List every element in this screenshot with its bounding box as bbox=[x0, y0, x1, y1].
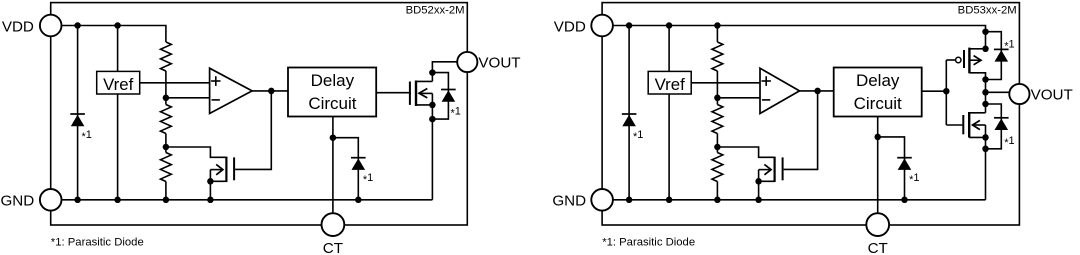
resistor R4 bbox=[712, 42, 723, 71]
voltage reference Vref right bbox=[648, 71, 691, 94]
GND pin right bbox=[591, 189, 613, 211]
voltage reference Vref bbox=[97, 71, 140, 94]
junction on GND rail at Vref bbox=[114, 197, 121, 204]
VDD rail wire bbox=[51, 26, 166, 43]
diode D2 parasitic bbox=[441, 89, 456, 91]
wire comparator output to Q2 gate bbox=[784, 91, 818, 169]
transistor M1 gate bar bbox=[409, 82, 411, 105]
transistor M3 drain lead bbox=[969, 112, 985, 114]
node comparator output right bbox=[814, 88, 821, 95]
transistor M1 source lead bbox=[416, 104, 432, 106]
wire CT branch to diode D7 bbox=[878, 137, 905, 200]
node M2 drain bbox=[982, 46, 989, 53]
transistor M1 channel bar bbox=[415, 81, 417, 107]
transistor M2 drain lead bbox=[969, 48, 985, 50]
transistor Q2 body arrow bbox=[759, 169, 770, 171]
node divider tap 3 bbox=[714, 95, 721, 102]
transistor M2 gate bar bbox=[963, 50, 965, 68]
node divider tap 4 bbox=[714, 144, 721, 151]
node divider tap 1 bbox=[163, 95, 170, 102]
GND rail wire bbox=[51, 199, 433, 201]
transistor Q1 channel bar bbox=[225, 157, 227, 182]
wire delay circuit to output gates bbox=[922, 90, 947, 92]
wire Vref to GND rail right bbox=[668, 94, 670, 200]
svg-text:*1: Parasitic Diode: *1: Parasitic Diode bbox=[51, 237, 144, 249]
wire M1 body-source to GND rail bbox=[431, 93, 433, 199]
svg-text:GND: GND bbox=[0, 192, 34, 209]
plus sign of U2 bbox=[762, 80, 771, 82]
node VDD rail end bbox=[982, 28, 989, 35]
comparator output wire right bbox=[800, 90, 834, 92]
diode D3 parasitic bbox=[351, 157, 366, 159]
VDD pin right bbox=[591, 15, 613, 37]
VOUT pin bbox=[457, 52, 477, 72]
node gate split bbox=[943, 88, 950, 95]
node M3 drain bbox=[982, 101, 989, 108]
wire divider tap to comparator - input right bbox=[717, 97, 760, 99]
diode D6 parasitic bbox=[994, 117, 1009, 119]
delay circuit block bbox=[288, 68, 376, 117]
junction on GND rail at R3 bbox=[163, 197, 170, 204]
svg-text:*1: Parasitic Diode: *1: Parasitic Diode bbox=[602, 237, 695, 249]
wire delay circuit to CT right bbox=[877, 117, 879, 225]
wire to M2 gate bubble bbox=[946, 59, 955, 61]
wire divider tap to comparator - input bbox=[166, 97, 210, 99]
svg-text:VDD: VDD bbox=[2, 19, 34, 36]
node M2 diode return bbox=[982, 76, 989, 83]
junction on GND rail at R6 bbox=[714, 197, 721, 204]
transistor Q2 source lead bbox=[759, 180, 775, 182]
wire delay circuit to M1 gate bbox=[376, 92, 411, 94]
op-amp comparator U1 bbox=[210, 68, 253, 113]
node divider tap 2 bbox=[163, 144, 170, 151]
junction on GND rail at Q2 bbox=[755, 197, 762, 204]
svg-text:VDD: VDD bbox=[554, 19, 586, 36]
wire delay circuit to CT bbox=[332, 117, 334, 225]
junction on GND rail at D7 bbox=[901, 197, 908, 204]
VDD pin bbox=[40, 15, 62, 37]
wire M3 body-source to GND rail bbox=[985, 125, 987, 200]
transistor Q2 gate bar bbox=[782, 157, 784, 180]
package outline BD53xx-2M bbox=[602, 3, 1019, 225]
package outline BD52xx-2M bbox=[51, 3, 468, 225]
svg-text:VOUT: VOUT bbox=[478, 55, 520, 72]
node M1 source bbox=[429, 102, 436, 109]
junction on GND rail at D3 bbox=[355, 197, 362, 204]
wire gate split vertical bbox=[945, 60, 947, 125]
junction Q2 source bbox=[755, 178, 762, 185]
wire parasitic diode D6 branch bbox=[986, 104, 1002, 149]
wire M2 source to M3 drain bbox=[985, 80, 987, 113]
wire Q2 source to GND rail bbox=[758, 170, 760, 200]
wire R4 to R5 bbox=[716, 71, 718, 105]
junction on GND rail at Vref right bbox=[666, 197, 673, 204]
svg-text:GND: GND bbox=[552, 192, 586, 209]
transistor Q1 body arrow bbox=[210, 169, 221, 171]
junction on GND rail at D4 bbox=[626, 197, 633, 204]
wire Vref to comparator + input right bbox=[691, 82, 760, 84]
transistor Q2 channel bar bbox=[773, 157, 775, 182]
svg-text:Vref: Vref bbox=[103, 75, 133, 94]
minus sign of U1 bbox=[212, 99, 220, 101]
VDD rail wire right bbox=[602, 26, 985, 52]
wire Vref to comparator + input bbox=[140, 82, 210, 84]
wire R2 to R3 bbox=[165, 134, 167, 153]
wire parasitic diode D2 branch bbox=[432, 73, 448, 120]
comparator output wire bbox=[252, 90, 288, 92]
transistor M3 gate bar bbox=[962, 115, 964, 134]
junction on VDD rail at diode D1 bbox=[74, 22, 81, 29]
delay circuit block right bbox=[834, 68, 922, 117]
transistor Q1 source lead bbox=[210, 180, 226, 182]
wire R3 to GND rail bbox=[165, 182, 167, 200]
junction on VDD rail at Vref bbox=[114, 22, 121, 29]
resistor R3 bbox=[161, 153, 172, 182]
transistor M3 body arrow bbox=[974, 124, 986, 126]
junction on VDD rail at Vref right bbox=[666, 22, 673, 29]
diode D4 parasitic bbox=[622, 113, 637, 115]
wire parasitic diode D5 branch bbox=[986, 32, 1002, 80]
transistor M1 drain lead bbox=[416, 80, 432, 82]
resistor R5 bbox=[712, 105, 723, 134]
svg-text:BD52xx-2M: BD52xx-2M bbox=[406, 4, 465, 16]
diode D1 parasitic bbox=[70, 113, 85, 115]
svg-text:Delay: Delay bbox=[311, 71, 355, 90]
wire Vref to GND rail bbox=[117, 94, 119, 200]
junction on VDD rail at R4 bbox=[714, 22, 721, 29]
wire to M3 gate bbox=[946, 124, 962, 126]
transistor Q1 gate bar bbox=[233, 157, 235, 180]
CT pin right bbox=[866, 213, 889, 236]
wire M1 drain to VOUT bbox=[432, 62, 458, 82]
transistor M3 channel bar bbox=[968, 112, 970, 138]
wire diode D1 branch bbox=[77, 26, 79, 200]
transistor M2 channel bar bbox=[968, 48, 970, 74]
junction on GND rail at Q1 bbox=[207, 197, 214, 204]
GND rail wire right bbox=[602, 199, 985, 201]
svg-text:VOUT: VOUT bbox=[1031, 87, 1073, 104]
wire Q1 source to GND rail bbox=[209, 170, 211, 200]
wire divider tap 4 to Q2 drain bbox=[717, 147, 773, 157]
wire diode D4 branch bbox=[628, 26, 630, 200]
diode D5 parasitic bbox=[994, 48, 1009, 50]
transistor M1 body arrow bbox=[420, 92, 432, 94]
plus sign of U1 bbox=[211, 80, 220, 82]
VOUT pin right bbox=[1009, 84, 1029, 104]
CT pin bbox=[322, 213, 345, 236]
resistor R6 bbox=[712, 153, 723, 182]
transistor M2 body arrow bbox=[969, 59, 980, 61]
wire R1 to R2 bbox=[165, 71, 167, 105]
wire divider tap 2 to Q1 drain bbox=[166, 147, 226, 157]
node M1 drain bbox=[429, 69, 436, 76]
node M3 diode return bbox=[982, 146, 989, 153]
node CT branch bbox=[330, 134, 337, 141]
resistor R2 bbox=[161, 105, 172, 134]
junction Q1 source bbox=[207, 178, 214, 185]
gate bubble of M2 bbox=[956, 57, 961, 62]
junction on VDD rail at diode D4 bbox=[626, 22, 633, 29]
wire comparator output to Q1 gate bbox=[235, 91, 271, 169]
wire VDD to Vref bbox=[117, 26, 119, 72]
diode D7 parasitic bbox=[897, 157, 912, 159]
wire CT branch to diode D3 bbox=[333, 138, 358, 200]
node VOUT tap bbox=[982, 89, 989, 96]
wire VOUT tap to pin bbox=[986, 91, 1010, 93]
node M1 diode return bbox=[429, 116, 436, 123]
svg-text:Vref: Vref bbox=[655, 75, 685, 94]
transistor M2 source lead bbox=[969, 73, 985, 80]
wire VDD to Vref right bbox=[668, 26, 670, 72]
wire R4 top bbox=[716, 26, 718, 43]
minus sign of U2 bbox=[762, 99, 770, 101]
junction on GND rail at D1 bbox=[74, 197, 81, 204]
svg-text:CT: CT bbox=[323, 240, 343, 255]
svg-text:Delay: Delay bbox=[856, 71, 900, 90]
op-amp comparator U2 bbox=[760, 68, 800, 113]
transistor M3 source lead bbox=[969, 136, 985, 138]
svg-text:Circuit: Circuit bbox=[854, 94, 902, 113]
wire R5 to R6 bbox=[716, 134, 718, 153]
resistor R1 bbox=[161, 42, 172, 71]
wire R6 to GND rail bbox=[716, 182, 718, 200]
node CT branch right bbox=[874, 134, 881, 141]
svg-text:Circuit: Circuit bbox=[308, 94, 356, 113]
svg-text:CT: CT bbox=[868, 240, 888, 255]
node M3 source bbox=[982, 134, 989, 141]
svg-text:BD53xx-2M: BD53xx-2M bbox=[958, 4, 1017, 16]
node comparator output bbox=[268, 88, 275, 95]
GND pin bbox=[40, 189, 62, 211]
